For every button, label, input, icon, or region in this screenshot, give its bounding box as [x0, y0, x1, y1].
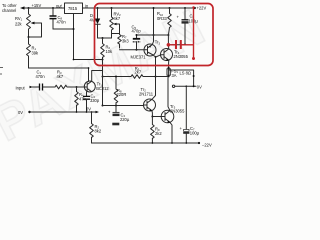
svg-text:0V: 0V — [197, 85, 202, 90]
watermark — [0, 0, 215, 152]
wire Tr2 base — [103, 105, 144, 107]
svg-text:470p: 470p — [132, 29, 142, 34]
node 0V rail / R7 — [91, 111, 93, 113]
wire D1/RV2 bottom — [98, 37, 112, 39]
svg-text:channel: channel — [2, 8, 16, 13]
wire +22V rail — [83, 7, 195, 9]
svg-text:0V: 0V — [86, 107, 91, 112]
resistor R1 — [27, 37, 31, 68]
wire rail to driver emitter — [153, 8, 155, 35]
svg-text:4k7: 4k7 — [57, 74, 64, 79]
zener diode D1 4V7 — [97, 7, 99, 9]
resistor R5 2k7 — [131, 75, 156, 79]
red highlight box — [95, 4, 214, 66]
capacitor C4 220u — [115, 106, 117, 113]
svg-text:0R33: 0R33 — [157, 16, 168, 21]
svg-text:330p: 330p — [90, 98, 100, 103]
resistor R2 8k2 — [90, 112, 94, 143]
svg-text:220R: 220R — [117, 92, 127, 97]
resistor R3 4k7 — [55, 85, 84, 89]
capacitor C6 100u — [184, 7, 186, 9]
capacitor C8 470n — [52, 7, 54, 9]
svg-text:2k7: 2k7 — [135, 70, 142, 75]
svg-text:Input: Input — [16, 85, 26, 90]
transistor Tr4 2N3055 — [161, 49, 173, 61]
svg-text:4V7: 4V7 — [90, 18, 98, 23]
potentiometer RV2 4k7 — [111, 7, 113, 9]
node RV1 bottom — [28, 36, 30, 38]
red wire vertical — [193, 8, 195, 59]
capacitor C5 470p — [136, 35, 138, 38]
regulator U1 7815 — [65, 3, 83, 14]
red node output — [167, 43, 171, 47]
svg-text:3A: 3A — [172, 73, 177, 78]
wire 7815 ground pin — [53, 14, 74, 60]
svg-text:out: out — [56, 3, 63, 8]
capacitor C1 470n — [40, 84, 43, 91]
wire Tr1 collector loop — [92, 71, 103, 106]
svg-text:MJE371: MJE371 — [131, 55, 147, 60]
resistor R8 220R — [114, 77, 118, 106]
wire driver emitter rail y35 — [137, 34, 169, 36]
wire -22V rail — [92, 142, 200, 144]
transistor Tr5 2N3055 — [161, 110, 174, 123]
svg-text:100µ: 100µ — [190, 130, 200, 135]
scan edge ticks — [0, 68, 3, 75]
svg-text:2N1711: 2N1711 — [139, 91, 154, 96]
node RV1 top — [28, 7, 30, 9]
red capacitor annotation — [170, 44, 175, 46]
wire R5 rail to fuse bottom — [156, 76, 169, 78]
resistor R9 2k2 — [151, 117, 155, 144]
wire collector rail y76.5 — [103, 76, 132, 78]
svg-text:470n: 470n — [57, 20, 67, 25]
transistor Tr3 MJE371 — [144, 44, 156, 56]
resistor R4 47k — [75, 87, 79, 112]
svg-text:4k7: 4k7 — [114, 16, 121, 21]
svg-text:2k2: 2k2 — [155, 131, 162, 136]
svg-text:7815: 7815 — [68, 6, 78, 11]
svg-text:+22V: +22V — [197, 5, 207, 10]
potentiometer RV1 — [27, 8, 31, 37]
svg-text:22k: 22k — [15, 22, 23, 27]
wire output to C6 — [168, 44, 185, 46]
wire bias node down — [102, 60, 104, 77]
transistor Tr2 2N1711 — [144, 99, 156, 111]
svg-text:LS 8Ω: LS 8Ω — [180, 70, 191, 75]
svg-text:2N3055: 2N3055 — [174, 54, 189, 59]
svg-text:8k2: 8k2 — [95, 129, 102, 134]
speaker return / 0V terminal — [172, 85, 174, 87]
svg-text:470n: 470n — [36, 74, 46, 79]
capacitor C7 100u — [185, 85, 187, 87]
svg-text:10k: 10k — [106, 49, 114, 54]
svg-text:220µ: 220µ — [120, 117, 130, 122]
capacitor C2 330p — [86, 92, 88, 96]
wire 0V rail — [28, 111, 30, 113]
wire R1 to Tr1 emitter — [29, 67, 89, 69]
wire to LS terminal — [169, 70, 194, 86]
wire output node vertical — [167, 35, 169, 46]
transistor Tr1 BC212 — [84, 81, 95, 92]
wire Tr1 emitter up — [88, 68, 90, 82]
svg-text:−22V: −22V — [202, 143, 212, 148]
node +22V terminal — [194, 7, 196, 9]
svg-text:2N3055: 2N3055 — [170, 108, 185, 113]
wire gnd pin to bias node — [74, 59, 103, 61]
resistor R7 3k3 — [118, 34, 122, 49]
wire +15V rail left — [22, 7, 65, 9]
svg-text:0V: 0V — [18, 110, 23, 115]
svg-text:+15V: +15V — [32, 3, 42, 8]
svg-text:3k3: 3k3 — [122, 38, 129, 43]
node arrow to other channel — [20, 6, 25, 9]
wire MJE371 base — [120, 49, 145, 51]
resistor R10 0R33 — [169, 7, 171, 9]
svg-text:39k: 39k — [32, 51, 40, 56]
resistor R6 10k — [101, 38, 105, 60]
fuse FS1 3A — [167, 69, 170, 75]
